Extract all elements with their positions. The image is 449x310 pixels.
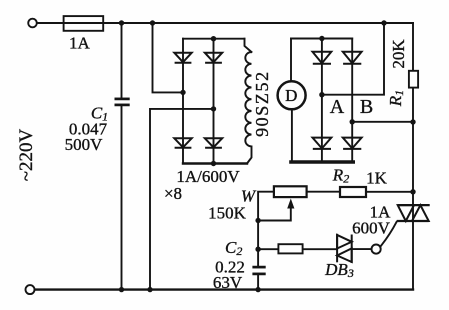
svg-text:20K: 20K bbox=[389, 39, 408, 69]
svg-text:~220V: ~220V bbox=[16, 128, 37, 181]
svg-text:D: D bbox=[285, 86, 297, 105]
svg-text:150K: 150K bbox=[208, 204, 247, 223]
svg-text:600V: 600V bbox=[352, 219, 391, 238]
svg-text:1K: 1K bbox=[366, 169, 388, 188]
svg-text:63V: 63V bbox=[213, 273, 243, 292]
svg-text:1A: 1A bbox=[69, 34, 91, 53]
svg-text:500V: 500V bbox=[65, 135, 104, 154]
svg-text:1A/600V: 1A/600V bbox=[176, 167, 240, 186]
svg-text:A: A bbox=[330, 96, 345, 118]
svg-text:90SZ52: 90SZ52 bbox=[252, 70, 272, 137]
svg-text:B: B bbox=[360, 96, 373, 118]
svg-text:×8: ×8 bbox=[164, 184, 182, 203]
